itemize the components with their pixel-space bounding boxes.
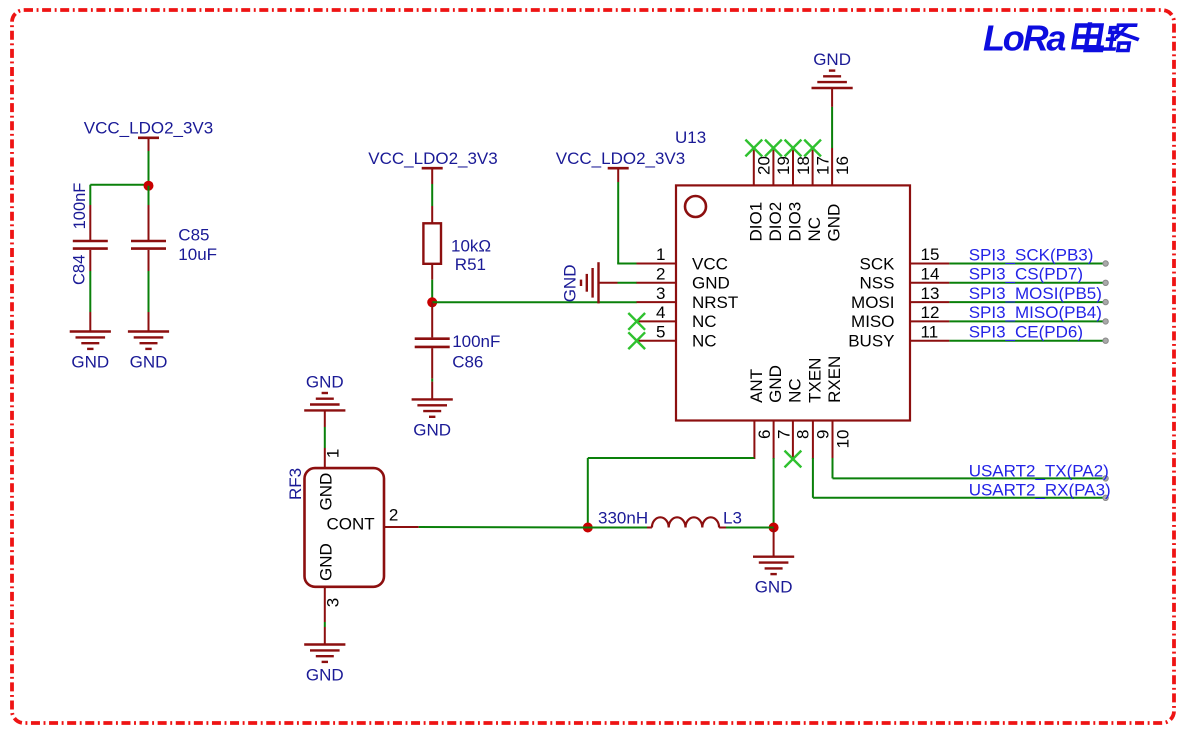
U13 pin 15 SCK lead <box>910 263 949 265</box>
net stub SPI3_MOSI(PB5) end <box>1103 299 1108 304</box>
wire U13 pin 6 ANT to node C <box>588 457 755 459</box>
title glyph lu <box>1102 25 1141 51</box>
svg-text:MISO: MISO <box>851 312 894 331</box>
net stub SPI3_CE(PD6) end <box>1103 338 1108 343</box>
inductor L3 left lead <box>647 527 652 529</box>
svg-text:330nH: 330nH <box>598 509 648 528</box>
svg-text:5: 5 <box>656 322 665 341</box>
U13 pin 17 NC lead <box>812 148 814 185</box>
svg-text:U13: U13 <box>675 128 706 147</box>
svg-text:13: 13 <box>921 284 940 303</box>
U13 pin 18 DIO3 lead <box>792 148 794 185</box>
net stub SPI3_MISO(PB4) end <box>1103 319 1108 324</box>
U13 pin 9 TXEN lead <box>812 421 814 459</box>
IC U13 body <box>676 185 910 420</box>
svg-text:NC: NC <box>785 378 804 403</box>
junction node A <box>144 181 154 191</box>
svg-text:3: 3 <box>324 598 343 607</box>
svg-text:16: 16 <box>833 156 852 175</box>
svg-text:GND: GND <box>306 373 344 392</box>
no-connect flag pin 8 <box>785 451 802 468</box>
wire SPI3_CS(PD7) net wire <box>949 282 1105 284</box>
svg-text:1: 1 <box>324 449 343 458</box>
connector RF3 body <box>305 468 385 587</box>
ground GND (C86) <box>412 399 453 439</box>
wire junction A to C85 <box>148 186 150 205</box>
capacitor C84 bottom lead <box>89 250 91 271</box>
net stub USART2_TX end <box>1103 476 1108 481</box>
svg-text:VCC_LDO2_3V3: VCC_LDO2_3V3 <box>84 119 213 138</box>
svg-text:VCC_LDO2_3V3: VCC_LDO2_3V3 <box>556 149 685 168</box>
resistor R51 bottom lead <box>431 264 433 280</box>
U13 pin 12 MISO lead <box>910 320 949 322</box>
svg-text:USART2_RX(PA3): USART2_RX(PA3) <box>969 481 1111 500</box>
svg-text:GND: GND <box>755 578 793 597</box>
wire node C branch down <box>587 458 589 528</box>
svg-text:SPI3_CS(PD7): SPI3_CS(PD7) <box>969 265 1083 284</box>
wire C84 to GND <box>89 271 91 312</box>
ground stem C85 <box>148 312 150 332</box>
U13 pin 14 NSS lead <box>910 282 949 284</box>
capacitor C85 bottom lead <box>148 250 150 271</box>
svg-text:GND: GND <box>560 265 579 303</box>
svg-text:12: 12 <box>921 303 940 322</box>
svg-text:CONT: CONT <box>327 514 375 533</box>
capacitor C86 <box>415 339 450 347</box>
ground GND (node D) <box>753 557 794 597</box>
svg-text:14: 14 <box>921 265 940 284</box>
U13 pin 13 MOSI lead <box>910 301 949 303</box>
wire USART2_RX net wire <box>813 497 1106 499</box>
svg-text:NRST: NRST <box>692 293 738 312</box>
net stub SPI3_SCK(PB3) end <box>1103 261 1108 266</box>
U13 pin 10 RXEN lead <box>832 421 834 459</box>
U13 pin 4 NC lead <box>637 320 677 322</box>
resistor R51 <box>423 223 441 263</box>
wire to U13 pin 2 GND <box>618 282 637 284</box>
ground GND (C85) <box>128 332 169 372</box>
svg-text:R51: R51 <box>455 255 486 274</box>
svg-text:4: 4 <box>656 303 665 322</box>
wire RF3 pin 3 to GND <box>324 622 326 627</box>
capacitor C84 <box>73 241 108 249</box>
ground stem node D <box>773 528 775 557</box>
U13 pin 20 DIO1 lead <box>753 148 755 185</box>
wire GND to RF3 pin 1 <box>324 427 326 448</box>
wire VCC to junction A <box>148 151 150 181</box>
no-connect flag pin 19 <box>765 140 782 157</box>
wire stub above junction A <box>148 181 150 186</box>
net stub SPI3_CS(PD7) end <box>1103 280 1108 285</box>
svg-text:SPI3_MISO(PB4): SPI3_MISO(PB4) <box>969 303 1102 322</box>
svg-text:NSS: NSS <box>860 274 895 293</box>
svg-text:SPI3_MOSI(PB5): SPI3_MOSI(PB5) <box>969 284 1102 303</box>
U13 pin 5 NC lead <box>637 340 677 342</box>
svg-text:GND: GND <box>692 274 730 293</box>
svg-text:9: 9 <box>814 430 833 439</box>
U13 pin 3 NRST lead <box>637 301 677 303</box>
svg-text:GND: GND <box>766 365 785 403</box>
svg-text:2: 2 <box>656 265 665 284</box>
wire L3 to node D <box>726 527 774 529</box>
junction node C <box>583 523 593 533</box>
svg-text:DIO3: DIO3 <box>786 202 805 242</box>
svg-text:USART2_TX(PA2): USART2_TX(PA2) <box>969 462 1109 481</box>
capacitor C86 bottom lead <box>431 348 433 378</box>
svg-text:2: 2 <box>389 506 398 525</box>
svg-text:GND: GND <box>71 353 109 372</box>
power stem PWR3 <box>617 169 619 182</box>
no-connect flag pin 4 <box>628 313 645 330</box>
U13 pin 19 DIO2 lead <box>772 148 774 185</box>
svg-text:10: 10 <box>833 430 852 449</box>
svg-text:100nF: 100nF <box>71 183 89 230</box>
power stem PWR2 <box>431 169 433 184</box>
net stub USART2_RX end <box>1103 495 1108 500</box>
connector RF3 pin 3 lead <box>324 587 326 622</box>
svg-text:C86: C86 <box>452 352 483 371</box>
inductor L3 coils <box>652 517 719 527</box>
wire U13 pin 7 GND down to node D <box>773 458 775 528</box>
U13 pin 7 GND lead <box>773 421 775 459</box>
wire C86 to GND <box>431 379 433 382</box>
svg-text:NC: NC <box>805 217 824 242</box>
ground GND (pin 16) <box>812 50 853 88</box>
svg-text:SCK: SCK <box>860 254 896 273</box>
svg-text:SPI3_CE(PD6): SPI3_CE(PD6) <box>969 323 1083 342</box>
ground stem (pin 16) <box>831 88 833 107</box>
U13 pin 2 GND lead <box>637 282 677 284</box>
wire SPI3_SCK(PB3) net wire <box>949 263 1105 265</box>
svg-text:GND: GND <box>316 543 335 581</box>
svg-text:ANT: ANT <box>747 369 766 403</box>
wire SPI3_CE(PD6) net wire <box>949 340 1105 342</box>
svg-text:DIO2: DIO2 <box>766 202 785 242</box>
wire VCC to R51 <box>431 184 433 206</box>
ground GND (U13 pin 2) sideways <box>560 262 598 303</box>
ground GND (C84) <box>70 332 111 372</box>
U13 pin 6 ANT lead <box>753 421 755 459</box>
wire SPI3_MISO(PB4) net wire <box>949 320 1105 322</box>
resistor R51 top lead <box>431 206 433 223</box>
U13 pin 11 BUSY lead <box>910 340 949 342</box>
svg-text:VCC: VCC <box>692 254 728 273</box>
svg-text:C84: C84 <box>71 255 89 285</box>
wire SPI3_MOSI(PB5) net wire <box>949 301 1105 303</box>
svg-text:10kΩ: 10kΩ <box>451 237 491 256</box>
wire C84 branch down <box>89 185 91 205</box>
svg-text:LoRa: LoRa <box>983 18 1065 59</box>
svg-text:BUSY: BUSY <box>848 332 894 351</box>
power stem PWR1 <box>148 139 150 151</box>
svg-text:GND: GND <box>306 666 344 685</box>
wire C85 to GND <box>148 271 150 312</box>
capacitor C86 top lead <box>431 302 433 337</box>
svg-text:NC: NC <box>692 332 717 351</box>
U13 pin-1 marker circle <box>685 196 706 217</box>
svg-text:17: 17 <box>813 156 832 175</box>
U13 pin 1 VCC lead <box>637 263 677 265</box>
svg-text:GND: GND <box>316 473 335 511</box>
svg-text:GND: GND <box>825 204 844 242</box>
svg-text:NC: NC <box>692 312 717 331</box>
svg-text:C85: C85 <box>178 226 209 245</box>
connector RF3 pin 1 lead <box>324 448 326 468</box>
title glyph dian <box>1073 22 1105 50</box>
wire USART2_TX net wire <box>833 477 1106 479</box>
svg-text:RXEN: RXEN <box>825 356 844 403</box>
power flag PWR1 VCC_LDO2_3V3 <box>84 119 213 138</box>
inductor L3 right lead <box>719 527 726 529</box>
junction node B <box>427 297 437 307</box>
no-connect flag pin 18 <box>785 140 802 157</box>
svg-text:19: 19 <box>774 156 793 175</box>
wire node C to L3 <box>588 527 647 529</box>
svg-text:3: 3 <box>656 284 665 303</box>
wire node B to U13 pin 3 NRST <box>432 301 637 303</box>
svg-text:VCC_LDO2_3V3: VCC_LDO2_3V3 <box>368 149 497 168</box>
wire VCC down to pin 1 row <box>617 182 619 264</box>
svg-text:DIO1: DIO1 <box>746 202 765 242</box>
no-connect flag pin 20 <box>745 140 762 157</box>
svg-text:18: 18 <box>794 156 813 175</box>
ground stem (pin 2) <box>599 282 618 284</box>
svg-text:10uF: 10uF <box>178 245 217 264</box>
svg-text:GND: GND <box>813 50 851 69</box>
svg-text:GND: GND <box>413 420 451 439</box>
no-connect flag pin 17 <box>804 140 821 157</box>
ground GND (RF3 pin 3) <box>304 645 345 685</box>
wire U13 pin 9 TXEN down <box>812 458 814 498</box>
power flag PWR2 VCC_LDO2_3V3 <box>368 149 497 168</box>
svg-text:MOSI: MOSI <box>851 293 894 312</box>
svg-text:SPI3_SCK(PB3): SPI3_SCK(PB3) <box>969 245 1094 264</box>
svg-text:TXEN: TXEN <box>805 358 824 403</box>
capacitor C84 top lead <box>89 205 91 240</box>
svg-text:7: 7 <box>774 430 793 439</box>
ground stem C86 <box>431 382 433 400</box>
svg-text:100nF: 100nF <box>452 332 500 351</box>
capacitor C85 top lead <box>148 205 150 240</box>
svg-text:11: 11 <box>921 322 939 341</box>
U13 pin 8 NC lead <box>792 421 794 459</box>
wire junction A to C84 branch <box>90 184 149 186</box>
ground stem C84 <box>89 312 91 332</box>
wire R51 to junction B <box>431 280 433 303</box>
svg-text:6: 6 <box>755 430 774 439</box>
connector RF3 pin 2 lead <box>384 526 419 528</box>
capacitor C85 <box>131 241 166 249</box>
svg-text:1: 1 <box>656 245 665 264</box>
ground GND (RF3 pin 1) <box>304 373 345 411</box>
no-connect flag pin 5 <box>628 332 645 349</box>
power flag PWR3 VCC_LDO2_3V3 <box>556 149 685 168</box>
wire RF3 pin 2 to node C <box>419 526 588 529</box>
svg-text:15: 15 <box>921 245 940 264</box>
wire to U13 pin 1 VCC <box>617 263 637 265</box>
svg-text:RF3: RF3 <box>286 468 305 500</box>
svg-text:8: 8 <box>794 430 813 439</box>
svg-text:20: 20 <box>755 156 774 175</box>
junction node D <box>769 523 779 533</box>
svg-text:GND: GND <box>130 353 168 372</box>
svg-text:L3: L3 <box>723 509 742 528</box>
U13 pin 16 GND lead <box>831 148 833 185</box>
ground stem RF3 pin 3 <box>324 627 326 645</box>
wire GND to U13 pin 16 <box>831 107 833 148</box>
wire U13 pin 10 RXEN down <box>832 458 834 478</box>
ground stem RF3 pin 1 <box>324 410 326 427</box>
